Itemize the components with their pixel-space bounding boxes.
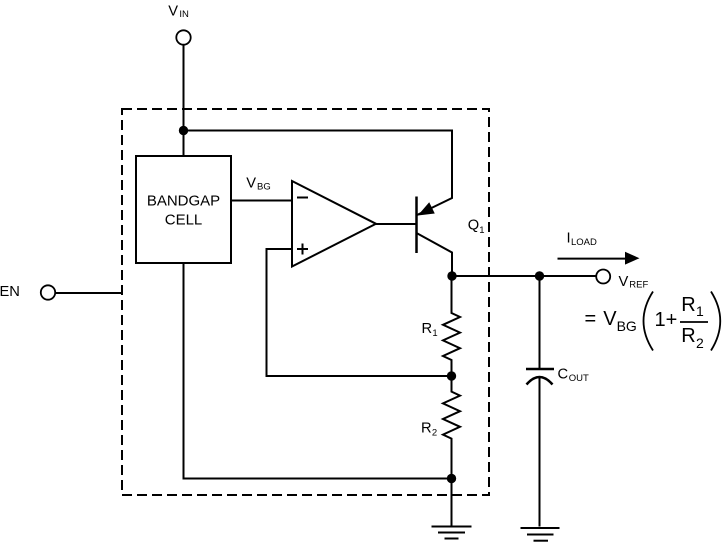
svg-text:1: 1 [432,328,437,339]
svg-text:Q: Q [468,218,479,234]
svg-text:R: R [681,294,695,316]
svg-text:V: V [168,3,178,19]
svg-text:I: I [567,231,571,247]
svg-text:=: = [585,308,597,330]
svg-text:CELL: CELL [165,212,203,229]
svg-text:1+: 1+ [655,309,678,331]
svg-text:LOAD: LOAD [571,237,597,248]
svg-text:1: 1 [696,303,704,319]
svg-text:BG: BG [617,318,637,334]
svg-text:BANDGAP: BANDGAP [147,193,220,210]
svg-text:R: R [681,325,695,347]
svg-text:V: V [619,274,629,290]
svg-text:2: 2 [696,335,704,351]
svg-text:R: R [422,321,433,337]
svg-text:2: 2 [432,427,437,438]
svg-text:EN: EN [0,284,20,300]
svg-text:REF: REF [629,279,648,290]
svg-text:IN: IN [179,9,189,20]
svg-text:BG: BG [257,182,271,193]
svg-text:R: R [421,420,432,436]
svg-text:OUT: OUT [569,373,589,384]
svg-text:C: C [558,367,569,383]
svg-text:1: 1 [479,225,484,236]
svg-text:V: V [246,175,256,191]
svg-text:V: V [603,308,617,330]
